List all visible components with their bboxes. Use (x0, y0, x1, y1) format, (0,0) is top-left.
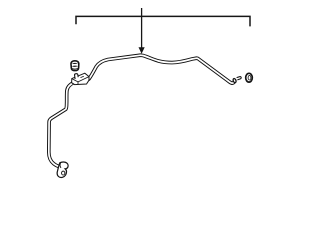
O-ring (246, 73, 253, 82)
valve nipple (74, 73, 78, 79)
right end fitting collar (233, 77, 242, 83)
wire left descending tube (49, 82, 75, 167)
cap rib lens 1 (72, 63, 78, 64)
fitting block on tube (valve body) (72, 73, 89, 84)
cap (sealing cap) (71, 61, 79, 71)
callout bracket (76, 16, 250, 26)
wire upper tube (89, 55, 234, 83)
bottom end fitting (57, 162, 68, 177)
cap rib arc (72, 67, 78, 70)
cap rib lens 2 (72, 66, 78, 67)
leader arrow (139, 8, 145, 54)
